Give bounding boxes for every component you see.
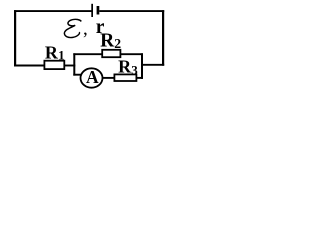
svg-text:3: 3	[131, 62, 138, 77]
svg-text:2: 2	[114, 36, 121, 51]
wire output to right side	[141, 64, 164, 66]
resistor R1 box	[44, 61, 64, 69]
wire battery to top-right corner	[99, 10, 164, 12]
svg-text:r: r	[96, 17, 105, 38]
battery short plate	[97, 6, 100, 15]
wire jog to ammeter	[73, 74, 81, 76]
ammeter A	[81, 68, 103, 87]
wire top branch left	[73, 53, 102, 55]
wire ammeter to R3	[102, 77, 114, 79]
wire R1 to node	[64, 65, 75, 67]
svg-text:1: 1	[58, 47, 65, 62]
wire inner-left vertical	[73, 53, 75, 75]
svg-text:,: ,	[83, 18, 88, 39]
label EMF script-E	[64, 19, 81, 37]
wire top-left segment	[14, 10, 92, 12]
resistor R2 box	[102, 50, 120, 57]
wire top branch right	[120, 53, 143, 55]
svg-text:A: A	[86, 67, 99, 87]
resistor R3 box	[114, 74, 136, 81]
wire left side	[14, 10, 16, 66]
battery long plate	[91, 4, 93, 17]
svg-text:R: R	[118, 57, 132, 77]
wire inner-right vertical	[141, 53, 143, 79]
wire R3 to inner-right vertical	[136, 77, 143, 79]
svg-text:R: R	[45, 42, 59, 62]
wire right side	[162, 10, 164, 65]
wire bottom-left to R1	[14, 65, 45, 67]
